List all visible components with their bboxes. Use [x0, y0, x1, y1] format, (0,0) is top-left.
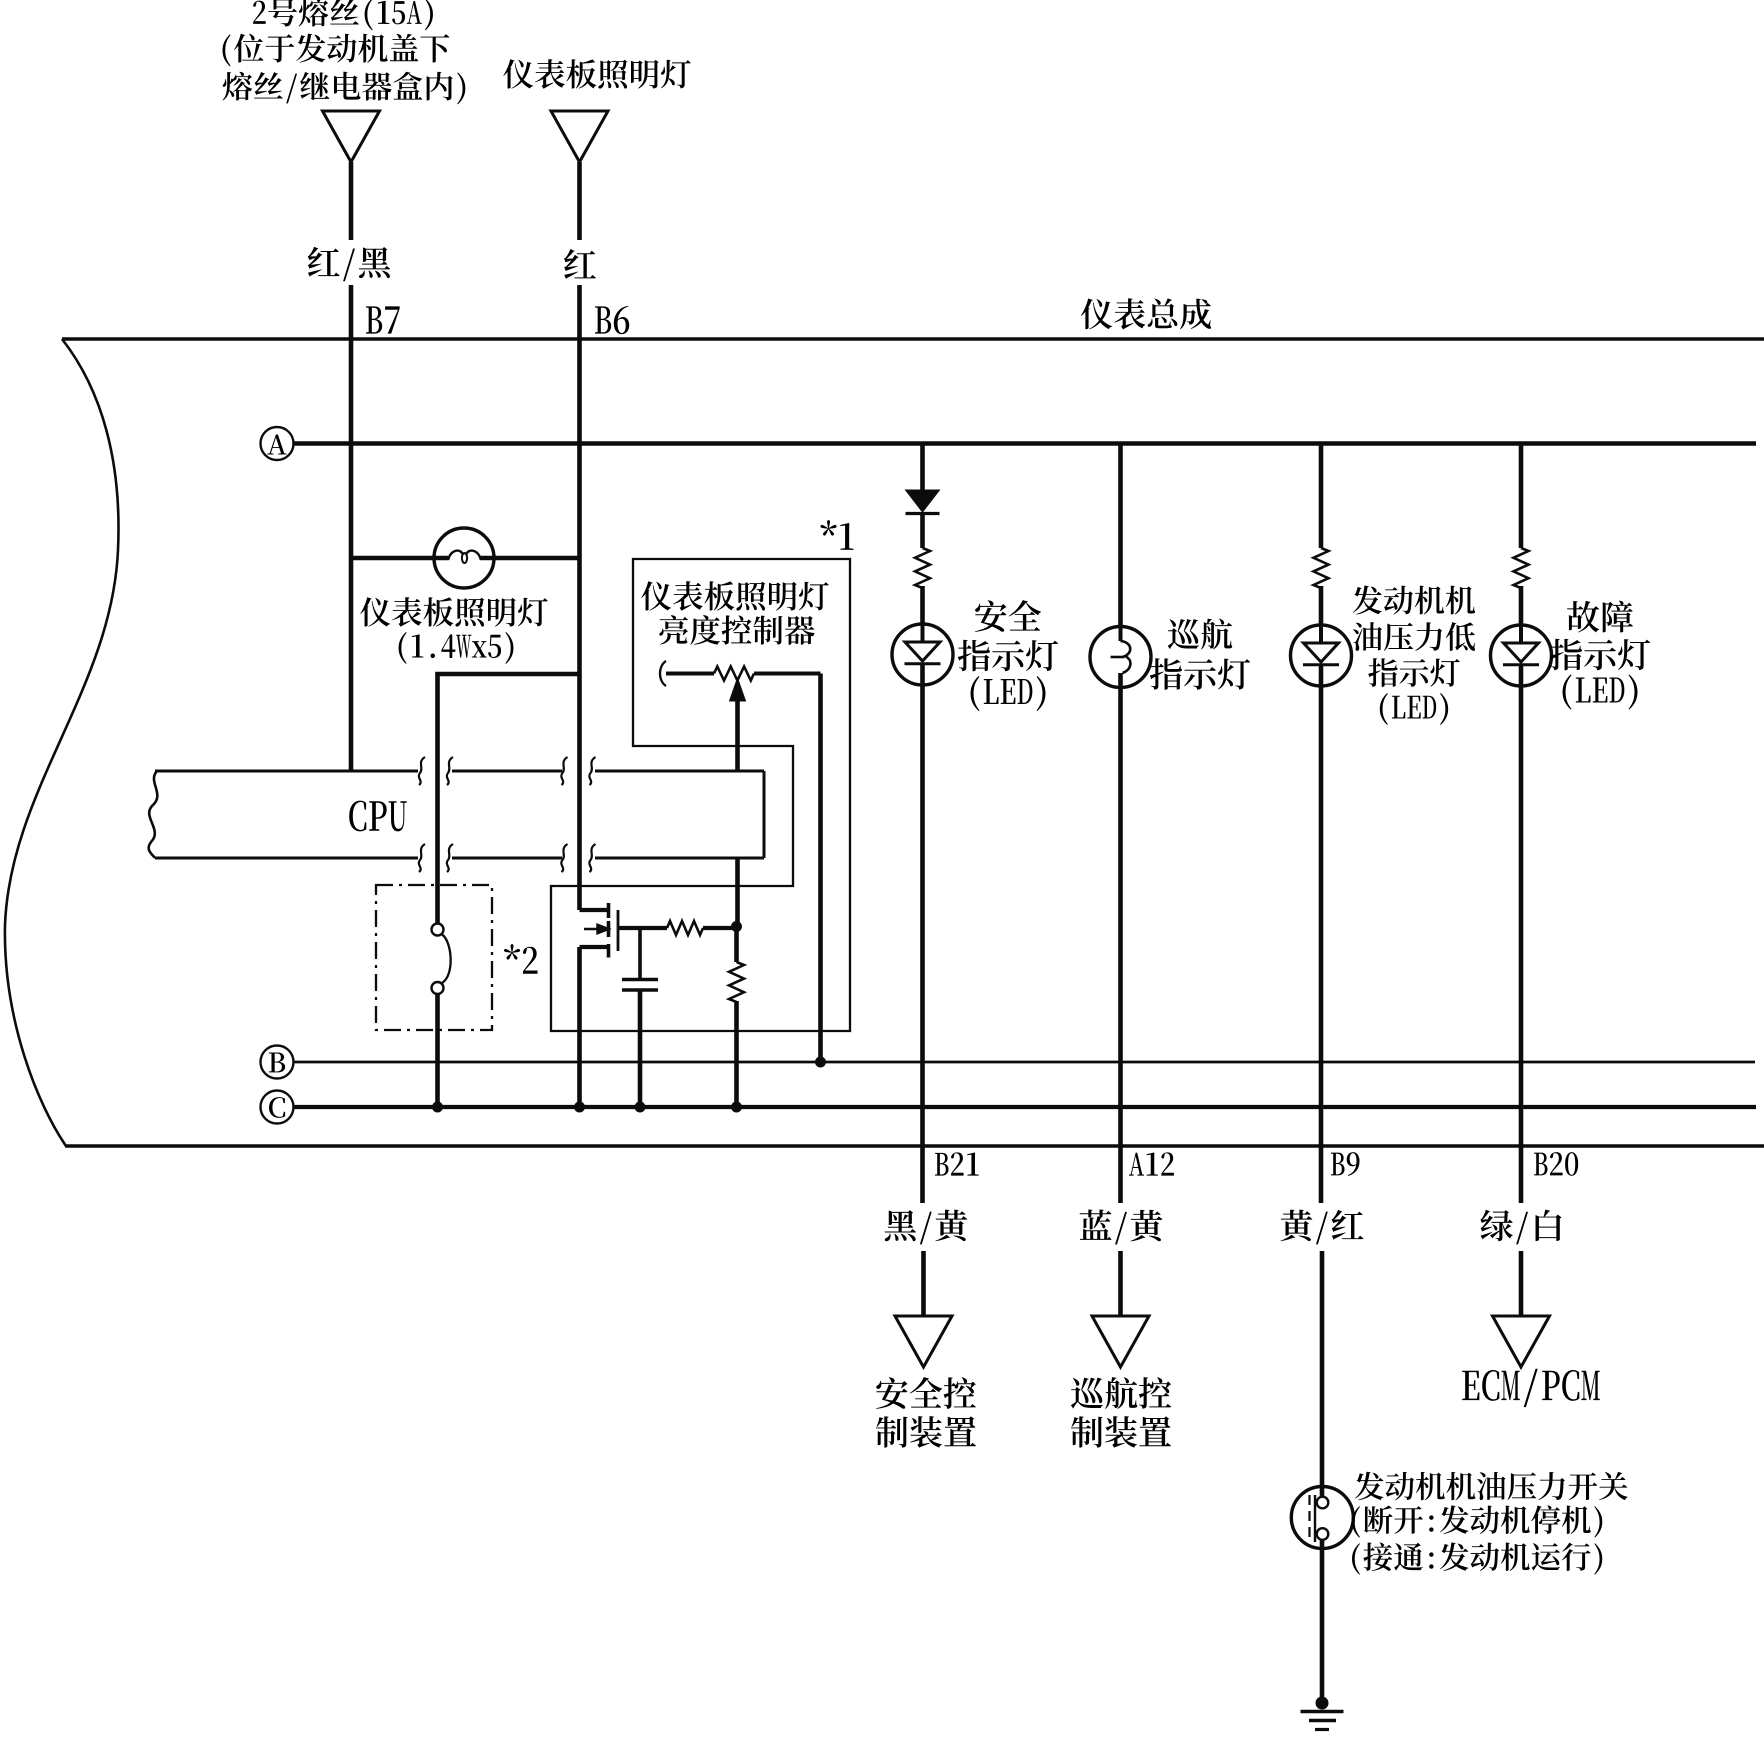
*2 dashed enclosure [376, 885, 492, 1030]
MOSFET source stub [580, 945, 609, 949]
LED triangle branch4 [1504, 643, 1539, 662]
wire resistor to LED branch3 [1319, 586, 1324, 625]
LED anode wire stub [921, 624, 925, 642]
wire fuse to B7 upper segment [349, 162, 354, 240]
label (断开:发动机停机) [1352, 1505, 1602, 1537]
junction dot R2 wire on bus C [731, 1102, 742, 1113]
LED triangle branch3 [1304, 643, 1339, 662]
wire bus A to diode [920, 444, 925, 491]
node A letter [267, 435, 286, 455]
node C circle [261, 1091, 294, 1124]
lamp filament arcs [448, 551, 481, 560]
LED 机油压力低指示灯 circle [1291, 625, 1352, 686]
wire lamp return through CPU to *2 switch [435, 771, 440, 923]
connector triangle to ECM/PCM [1493, 1316, 1550, 1367]
label 油压力低 [1353, 622, 1475, 651]
MOSFET drain stub [580, 908, 609, 912]
ground bar 3 [1315, 1728, 1329, 1731]
CPU box top edge seg3 [595, 770, 764, 773]
pin label B21 [935, 1152, 979, 1175]
wire resistor to LED branch4 [1519, 586, 1524, 625]
wire lamp return from B6 down-left to CPU [438, 674, 580, 771]
wire 红/黑 lower segment to pin B7 [349, 285, 354, 339]
LED 故障指示灯 circle [1491, 625, 1552, 686]
wire capacitor to bus C [638, 990, 643, 1107]
junction dot capacitor wire on bus C [635, 1102, 646, 1113]
connector triangle to security control unit [895, 1316, 952, 1367]
CPU box right edge [763, 771, 766, 858]
bulb 巡航指示灯 circle [1090, 627, 1151, 688]
wire color label 红/黑 (RED/BLK) [308, 247, 390, 282]
label lamp 仪表板照明灯 [360, 597, 547, 627]
diode D1 cathode bar [906, 512, 940, 515]
wire 红 upper segment [577, 162, 582, 240]
bulb filament middle bar [1111, 656, 1125, 659]
label ECM/PCM [1462, 1369, 1600, 1407]
wire to security control unit [921, 1251, 926, 1316]
wire color label 红 (RED) [564, 249, 596, 279]
label (LED) branch4 [1563, 675, 1638, 710]
connector triangle to cruise control unit [1092, 1316, 1149, 1367]
wire gate line down to capacitor [638, 928, 642, 979]
wire color 黄/红 [1280, 1210, 1363, 1245]
label controller line2 亮度控制器 [659, 615, 814, 645]
bus A horizontal wire [294, 441, 1757, 446]
wire 红 lower segment to pin B6 [577, 285, 582, 339]
junction dot pot wire on bus B [815, 1057, 826, 1068]
wire MOSFET source to bus C [577, 947, 582, 1107]
wire R1 to junction [703, 926, 737, 930]
label 指示灯 line2 [958, 640, 1058, 672]
LED cathode bar [905, 662, 941, 665]
instrument cluster box 仪表总成 top edge [62, 337, 1764, 340]
junction dot source wire on bus C [574, 1102, 585, 1113]
label *2 [504, 944, 537, 974]
label 安全 line1 [975, 600, 1041, 632]
wire B7 to lamp [351, 556, 448, 561]
wire switch to ground [1320, 1540, 1325, 1703]
switch upper contact circle [432, 924, 444, 936]
CPU box top edge seg2 [452, 770, 562, 773]
LED anode stub branch4 [1519, 625, 1523, 643]
instrument cluster box bottom edge [65, 1144, 1764, 1147]
wire B7 inside cluster down to CPU [349, 339, 354, 771]
label 指示灯 [1150, 658, 1250, 690]
*1 brightness controller enclosure outline [551, 559, 850, 1031]
potentiometer track left lead [666, 672, 714, 676]
pin label B7 [366, 306, 400, 333]
label 巡航 [1168, 619, 1232, 650]
MOSFET channel bar 1 [607, 903, 611, 918]
label CPU [349, 801, 407, 832]
wire resistor to LED [920, 586, 925, 624]
wire bulb down to pin A12 [1118, 673, 1123, 1203]
label controller line1 仪表板照明灯 [641, 581, 828, 611]
CPU box bottom edge break marks [419, 844, 425, 872]
wire to cruise control unit [1118, 1251, 1123, 1316]
connector triangle from fuse No.2 [323, 111, 380, 162]
CPU box top edge seg1 [155, 770, 418, 773]
label 指示灯 branch4 [1550, 639, 1650, 671]
wire color 蓝/黄 [1080, 1210, 1163, 1245]
switch blade arc [442, 935, 451, 984]
label *1 [820, 520, 853, 550]
wire LED down to pin B20 [1519, 665, 1524, 1203]
switch lower terminal [1317, 1528, 1329, 1540]
wire bus A to resistor branch4 [1519, 444, 1524, 549]
bulb top wire stub [1119, 628, 1123, 641]
wire B9 down to oil pressure switch [1320, 1251, 1325, 1497]
wire LED down through buses to pin B21 [920, 664, 925, 1203]
wire diode to resistor [920, 514, 925, 549]
resistor R1 zigzag [667, 921, 703, 935]
bulb filament curve [1121, 641, 1131, 673]
label fuse location line3 [223, 72, 466, 105]
bus B horizontal wire [294, 1061, 1756, 1064]
capacitor C bottom plate [622, 988, 658, 991]
ground bar 2 [1309, 1719, 1336, 1722]
label fuse No.2 15A line1 [253, 0, 433, 30]
switch lower contact circle [432, 982, 444, 994]
wire B6 down to MOSFET drain [577, 339, 582, 910]
label 指示灯 branch3 [1368, 658, 1459, 687]
potentiometer resistive element zigzag [714, 667, 754, 681]
label (接通:发动机运行) [1352, 1542, 1602, 1574]
node A circle [261, 427, 294, 460]
instrument cluster box torn left edge [5, 339, 119, 1146]
ground bar 1 [1301, 1710, 1344, 1714]
label 仪表板照明灯 (dash lights feed) [503, 59, 690, 89]
pin label B6 [595, 306, 629, 334]
pin label B20 [1534, 1152, 1578, 1176]
MOSFET body arrow [584, 925, 609, 933]
label (LED) line3 [971, 676, 1046, 711]
LED triangle [905, 642, 940, 661]
node B circle [261, 1046, 294, 1079]
resistor branch4 zigzag [1514, 548, 1529, 588]
diode D1 filled triangle [906, 490, 940, 512]
CPU box torn left edge [149, 771, 158, 858]
junction dot switch wire on bus C [432, 1102, 443, 1113]
pin label A12 [1129, 1152, 1174, 1175]
wire bus A to resistor branch3 [1319, 444, 1324, 549]
wire LED down to pin B9 [1319, 665, 1324, 1203]
wire gate to R1 [618, 926, 667, 930]
label 发动机机 [1353, 586, 1475, 615]
CPU box top edge break marks [419, 757, 425, 785]
CPU box bottom edge seg1 [155, 857, 418, 860]
oil pressure switch circle [1291, 1487, 1353, 1549]
resistor R2 zigzag [729, 962, 744, 1002]
switch upper terminal [1317, 1497, 1329, 1509]
LED cathode bar branch4 [1503, 663, 1539, 666]
node B letter [269, 1053, 285, 1073]
wire pot right terminal down to bus B [818, 674, 823, 1063]
label 仪表总成 (instrument cluster) [1081, 298, 1211, 329]
LED 安全指示灯 circle [892, 624, 953, 685]
potentiometer left break mark [660, 661, 666, 686]
wire color 绿/白 [1480, 1210, 1561, 1245]
wire color 黑/黄 [885, 1210, 968, 1245]
resistor branch3 zigzag [1314, 548, 1329, 588]
label (LED) branch3 [1380, 693, 1448, 725]
wire to ECM/PCM [1519, 1251, 1524, 1316]
wire CPU output to MOSFET gate RC [735, 858, 740, 926]
MOSFET channel bar 3 [607, 944, 611, 958]
label 制装置 [1071, 1416, 1171, 1448]
label 巡航控 [1071, 1377, 1171, 1409]
node C letter [269, 1097, 285, 1118]
label 安全控 [876, 1377, 976, 1409]
lamp 仪表板照明灯 circle [434, 528, 494, 588]
MOSFET gate plate [617, 910, 620, 951]
junction dot R1/R2/wiper [731, 921, 742, 932]
wire switch to bus C [435, 994, 440, 1107]
label fuse location line2 [222, 34, 449, 67]
CPU box bottom edge seg3 [595, 857, 764, 860]
switch blade solid line [1314, 1495, 1316, 1542]
MOSFET channel bar 2 [607, 921, 611, 937]
potentiometer track right lead [754, 672, 821, 676]
ground junction dot [1316, 1697, 1329, 1710]
LED anode stub branch3 [1319, 625, 1323, 643]
label 故障 [1567, 601, 1633, 633]
capacitor C top plate [622, 978, 658, 981]
LED cathode bar branch3 [1303, 663, 1339, 666]
wire junction down to R2 [734, 926, 739, 962]
connector triangle from dash light switch [551, 111, 608, 162]
wiper wire down to CPU [735, 698, 740, 771]
wire bus A to cruise bulb [1118, 444, 1123, 629]
potentiometer wiper arrow head [730, 678, 746, 701]
pin label B9 [1331, 1152, 1360, 1176]
resistor branch1 zigzag [915, 548, 930, 588]
switch blade dashed line [1308, 1495, 1310, 1540]
bus C horizontal wire [294, 1105, 1757, 1109]
CPU box bottom edge seg2 [452, 857, 562, 860]
label 发动机机油压力开关 [1355, 1472, 1628, 1501]
label 制装置 [876, 1416, 976, 1448]
wire R2 to bus C [734, 1001, 739, 1107]
label lamp (1.4Wx5) [399, 632, 514, 664]
wire lamp to B6 [481, 556, 580, 561]
